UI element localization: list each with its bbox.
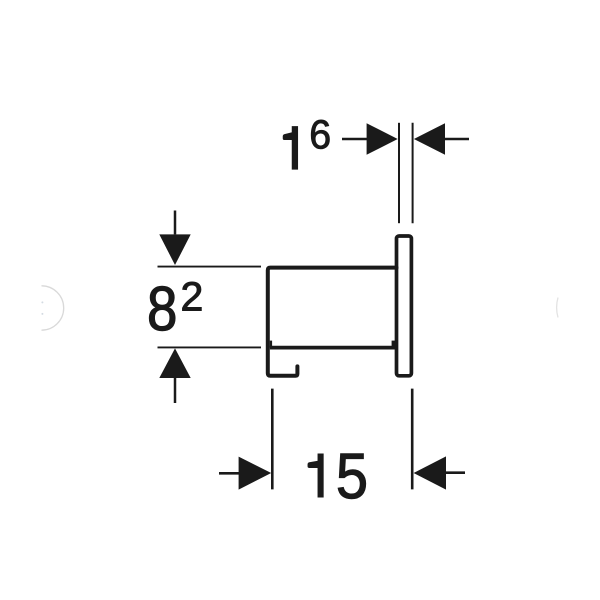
dimension 15: right arrowhead — [414, 456, 446, 489]
dimension 16: right leader — [445, 138, 469, 141]
dimension 82: down arrowhead — [159, 234, 190, 265]
dimension 16: label superscript 6 — [311, 120, 329, 149]
dimension 16: label digit 1 — [283, 127, 297, 170]
dimension 15: right leader — [446, 471, 465, 474]
dimension 82: extension line top — [158, 266, 262, 268]
dimension 15: label digit 5 — [338, 454, 365, 499]
dimension 16: extension line left — [398, 123, 400, 223]
faint watermark dot lower — [41, 313, 43, 315]
wall plate flange — [397, 236, 412, 376]
dimension 16: right arrowhead — [414, 123, 445, 155]
dimension 82: top leader — [174, 211, 177, 235]
dimension 82: extension line bottom — [158, 346, 262, 348]
bracket profile left lip — [270, 341, 272, 348]
bracket profile outline with hook — [268, 268, 397, 376]
bracket profile bottom web — [270, 346, 397, 350]
dimension 16: extension line right — [412, 123, 414, 223]
dimension 15: label digit 1 — [308, 454, 323, 497]
dimension 15: left leader — [219, 472, 239, 475]
dimension 15: extension line left — [271, 389, 274, 490]
dimension 16: left arrowhead — [367, 123, 398, 155]
dimension 15: left arrowhead — [239, 457, 272, 490]
faint watermark dot upper — [41, 301, 43, 303]
bracket profile right lip — [392, 341, 395, 348]
dimension 82: up arrowhead — [159, 348, 190, 378]
dimension 15: extension line right — [411, 389, 414, 490]
faint watermark arc right — [557, 298, 558, 318]
dimension 16: left leader — [342, 138, 367, 141]
dimension 82: label superscript 2 — [183, 282, 202, 311]
dimension 82: bottom leader — [174, 378, 177, 403]
faint watermark arc left — [42, 286, 64, 330]
dimension 82: label digit 8 — [149, 286, 175, 330]
